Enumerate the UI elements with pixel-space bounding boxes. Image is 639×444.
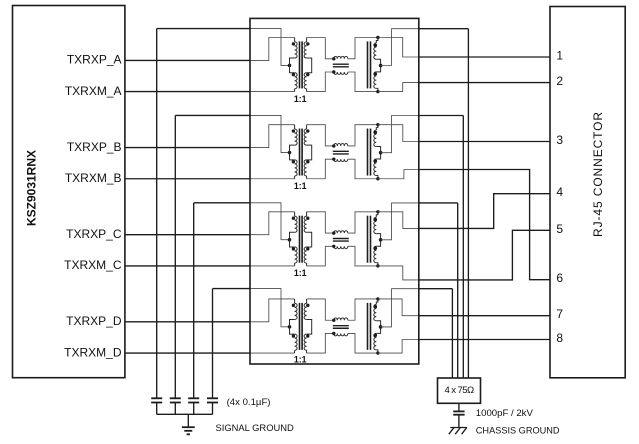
svg-text:TXRXM_D: TXRXM_D (64, 345, 122, 359)
svg-text:1000pF / 2kV: 1000pF / 2kV (476, 408, 534, 419)
svg-text:RJ-45 CONNECTOR: RJ-45 CONNECTOR (591, 111, 605, 237)
svg-text:4: 4 (556, 185, 563, 199)
svg-text:2: 2 (556, 74, 563, 88)
svg-text:5: 5 (556, 222, 563, 236)
svg-text:8: 8 (556, 331, 563, 345)
svg-text:7: 7 (556, 307, 563, 321)
svg-text:1:1: 1:1 (294, 94, 307, 104)
svg-text:(4x 0.1µF): (4x 0.1µF) (227, 397, 271, 408)
svg-text:3: 3 (556, 133, 563, 147)
svg-text:TXRXP_A: TXRXP_A (67, 53, 122, 67)
svg-text:TXRXP_B: TXRXP_B (67, 140, 122, 154)
svg-text:KSZ9031RNX: KSZ9031RNX (25, 150, 39, 226)
svg-text:TXRXM_A: TXRXM_A (65, 84, 122, 98)
svg-text:TXRXM_B: TXRXM_B (65, 171, 122, 185)
svg-text:1:1: 1:1 (294, 181, 307, 191)
svg-text:1:1: 1:1 (294, 268, 307, 278)
svg-text:6: 6 (556, 271, 563, 285)
svg-text:CHASSIS GROUND: CHASSIS GROUND (476, 425, 560, 435)
svg-text:TXRXP_D: TXRXP_D (66, 314, 122, 328)
svg-text:4 x 75Ω: 4 x 75Ω (444, 385, 474, 396)
svg-text:TXRXM_C: TXRXM_C (64, 258, 122, 272)
svg-text:1:1: 1:1 (294, 355, 307, 365)
svg-text:SIGNAL GROUND: SIGNAL GROUND (216, 422, 295, 433)
svg-text:TXRXP_C: TXRXP_C (66, 227, 122, 241)
svg-text:1: 1 (556, 49, 563, 63)
